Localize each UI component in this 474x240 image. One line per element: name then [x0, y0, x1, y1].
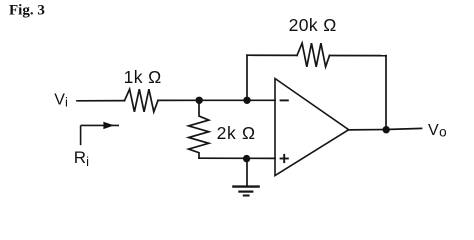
op-amp minus input symbol [280, 99, 289, 101]
feedback wire down to output [385, 56, 387, 130]
wire op-amp output to junction [349, 129, 386, 131]
feedback wire top right [330, 55, 387, 57]
arrow Ri direction [81, 125, 119, 145]
op-amp plus input symbol [280, 154, 289, 163]
wire ground tap to op-amp non-inverting input [247, 157, 275, 159]
svg-text:Vo: Vo [428, 122, 447, 139]
op-amp U1 triangle [275, 79, 349, 176]
wire node A to feedback tap [199, 99, 247, 101]
wire feedback tap to op-amp inverting input [247, 99, 275, 101]
svg-text:Fig. 3: Fig. 3 [9, 2, 45, 18]
feedback wire up from tap [246, 55, 248, 100]
junction feedback tap dot [243, 97, 250, 104]
resistor R1 1k [125, 89, 159, 112]
resistor R2 2k [189, 100, 209, 158]
svg-text:1k Ω: 1k Ω [124, 67, 162, 87]
junction node A dot [196, 97, 203, 104]
wire ground stem [246, 158, 248, 186]
wire input from Vi [77, 100, 125, 102]
junction output node dot [383, 126, 390, 133]
svg-text:Ri: Ri [74, 148, 89, 169]
svg-text:2k Ω: 2k Ω [217, 123, 256, 143]
wire R1 to node A [158, 99, 199, 101]
ground symbol [232, 187, 260, 196]
wire output junction to Vo [386, 128, 422, 129]
resistor R3 20k [297, 43, 330, 67]
junction ground tap dot [243, 155, 250, 162]
svg-text:20k Ω: 20k Ω [289, 15, 337, 35]
feedback wire top left [247, 54, 297, 56]
svg-text:Vi: Vi [54, 92, 68, 110]
wire R2 bottom to ground tap [199, 157, 247, 159]
